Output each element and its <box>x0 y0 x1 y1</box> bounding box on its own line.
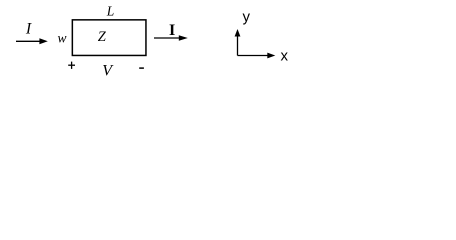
polarity plus sign <box>68 64 75 66</box>
left current arrowhead <box>39 38 47 44</box>
x axis arrowhead <box>267 53 275 59</box>
right current arrowhead <box>179 35 188 41</box>
svg-text:L: L <box>106 4 115 19</box>
svg-text:I: I <box>25 21 32 38</box>
impedance element Z (rectangle body) <box>72 20 146 56</box>
svg-text:Z: Z <box>98 29 107 45</box>
polarity minus sign <box>139 67 144 69</box>
x axis line <box>238 55 269 57</box>
svg-text:I: I <box>169 22 175 39</box>
svg-text:V: V <box>102 62 114 79</box>
wire: right current arrow shaft <box>154 37 179 39</box>
wire: left current arrow shaft <box>16 40 40 42</box>
svg-text:x: x <box>281 47 289 64</box>
svg-text:w: w <box>58 31 67 46</box>
y axis line <box>237 36 239 56</box>
svg-text:y: y <box>243 8 251 25</box>
y axis arrowhead <box>235 29 241 37</box>
